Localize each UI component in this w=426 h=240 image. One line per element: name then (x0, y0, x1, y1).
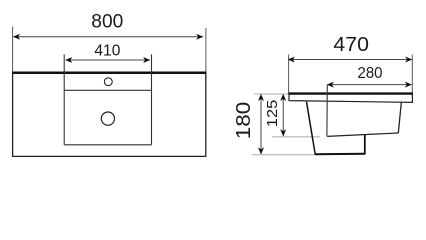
svg-text:470: 470 (333, 34, 369, 56)
basin interior front wall / 280 extension (326, 85, 328, 136)
svg-text:125: 125 (264, 100, 281, 128)
basin top edge (64, 89, 151, 91)
basin interior bottom line (327, 133, 398, 136)
countertop front edge (thick) (12, 71, 206, 74)
svg-text:800: 800 (91, 11, 123, 33)
extension line right of 800 dim (205, 28, 207, 72)
dimension line 470 (288, 57, 412, 63)
dimension line 410 (65, 57, 150, 63)
extension line right of 470/280 dims (411, 55, 413, 93)
pedestal right edge (364, 135, 366, 154)
svg-text:280: 280 (358, 65, 383, 82)
dimension line 180 (vertical) (258, 94, 264, 155)
extension line at pedestal bottom level (252, 154, 317, 156)
basin left side / 410 extension (63, 54, 65, 144)
extension line left of 800 dim (12, 27, 14, 72)
basin back wall (398, 103, 401, 134)
basin bottom edge (64, 144, 151, 146)
counter slab top edge (thick) (288, 92, 413, 94)
drain hole (101, 112, 114, 125)
faucet hole (104, 78, 112, 86)
dimension line 125 (vertical) (280, 94, 286, 136)
svg-text:410: 410 (94, 43, 120, 60)
extension line at counter top level (left of side view) (254, 93, 289, 95)
counter slab outline (side view) (289, 93, 412, 103)
basin front outer wall (307, 102, 316, 154)
extension line at basin interior bottom level (272, 136, 320, 138)
extension line left of 470 dim (288, 55, 290, 94)
dimension line 280 (327, 82, 412, 88)
svg-text:180: 180 (233, 102, 255, 140)
countertop outline (front view) (13, 73, 206, 157)
basin right side / 410 extension (151, 54, 153, 144)
dimension line 800 (13, 34, 203, 40)
pedestal bottom edge (315, 153, 365, 156)
